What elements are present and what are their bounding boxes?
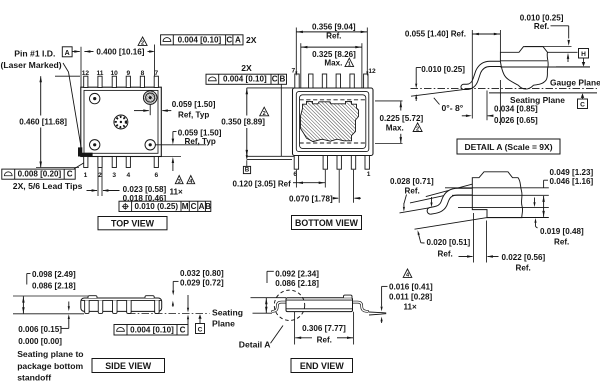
dimension 0.019 [0.48] ref — [535, 222, 537, 227]
side view body — [81, 298, 162, 311]
adjacent lead wedge lines — [426, 184, 473, 197]
middle detail lead plane lines — [445, 187, 549, 189]
svg-text:Ref, Typ: Ref, Typ — [178, 110, 209, 119]
end view right lead — [352, 302, 368, 311]
svg-text:0.306 [7.77]: 0.306 [7.77] — [302, 324, 346, 333]
svg-text:0.092 [2.34]: 0.092 [2.34] — [275, 269, 319, 278]
svg-text:C: C — [67, 170, 73, 179]
svg-text:C: C — [180, 325, 186, 334]
detail A callout circle — [274, 290, 304, 320]
dimension 0.460 [11.68] left of top view — [55, 75, 80, 77]
svg-text:12: 12 — [368, 68, 376, 75]
adjacent lead wedge end view — [369, 311, 386, 314]
top view leads pins 1-6 bottom row — [84, 157, 88, 168]
svg-text:0.019 [0.48]: 0.019 [0.48] — [540, 227, 584, 236]
middle detail body bottom line extended — [487, 217, 549, 219]
dimension 0.034/0.026 foot length — [486, 91, 488, 121]
datum C flag side view — [196, 324, 205, 334]
bottom view leads pins 6-1 bottom row — [294, 156, 298, 170]
svg-text:Plane: Plane — [212, 319, 235, 329]
svg-text:1: 1 — [348, 62, 351, 68]
svg-text:0.023 [0.58]: 0.023 [0.58] — [123, 185, 167, 194]
feature control frame 0.004 [0.10] C A — [161, 35, 243, 45]
svg-text:10: 10 — [111, 70, 119, 77]
svg-text:B: B — [279, 75, 285, 84]
svg-text:1: 1 — [84, 172, 88, 179]
svg-text:0.400 [10.16]: 0.400 [10.16] — [96, 48, 144, 57]
svg-text:2: 2 — [141, 41, 144, 47]
dimension 0.306 [7.77] ref — [294, 312, 296, 345]
svg-text:2: 2 — [98, 172, 102, 179]
svg-text:Seating Plane: Seating Plane — [510, 95, 565, 105]
svg-text:0.000 [0.00]: 0.000 [0.00] — [18, 337, 62, 346]
dimension 0.356 [9.04] ref lead span — [295, 28, 297, 74]
side view leads — [85, 300, 90, 313]
svg-text:0°- 8°: 0°- 8° — [442, 103, 464, 113]
svg-text:0.356 [9.04]: 0.356 [9.04] — [312, 23, 356, 32]
center gear laser mark — [114, 115, 128, 129]
hatched die attach pad — [301, 101, 359, 141]
dimension 0.059 ref typ lower (hole to bottom edge) — [156, 144, 207, 146]
svg-text:A: A — [235, 35, 241, 44]
svg-text:2X: 2X — [241, 63, 252, 73]
svg-text:Pin #1 I.D.: Pin #1 I.D. — [14, 48, 55, 58]
dimension 0.023/0.018 lead width bottom — [97, 168, 99, 196]
seating line under foot — [400, 205, 445, 213]
dimension 0.092/0.086 end view height — [265, 298, 267, 313]
leader from flatness frame down — [280, 84, 282, 156]
note triangle 3 — [175, 176, 183, 184]
pin 1 id leader line — [63, 63, 81, 149]
dimension 0.098/0.086 body height — [22, 296, 24, 313]
detail A extension line right (body edge) — [499, 30, 501, 52]
datum C flag detail A — [578, 99, 588, 109]
side view top bumps — [88, 296, 97, 298]
svg-text:C: C — [580, 102, 585, 109]
svg-text:Seating: Seating — [212, 308, 243, 318]
svg-text:TOP VIEW: TOP VIEW — [111, 218, 155, 228]
svg-text:C: C — [198, 327, 203, 334]
svg-text:4: 4 — [126, 172, 130, 179]
side view label box — [92, 359, 165, 373]
svg-text:0.008 [0.20]: 0.008 [0.20] — [18, 170, 62, 179]
middle detail foot top line extended — [458, 207, 549, 209]
side view extension lines left — [13, 295, 88, 297]
bottom view leads pins 7-12 top row — [295, 74, 299, 88]
svg-text:Ref.: Ref. — [534, 22, 549, 31]
foot angle line 0-8 deg — [411, 90, 463, 97]
svg-text:11×: 11× — [404, 302, 418, 311]
dimension 0.350 [8.89] height — [247, 87, 294, 89]
die attach area dashed lines — [300, 99, 366, 101]
svg-text:0.010 [0.25]: 0.010 [0.25] — [520, 13, 564, 22]
svg-text:C: C — [226, 35, 232, 44]
svg-text:H: H — [581, 51, 586, 58]
seating plane line detail A — [489, 92, 597, 94]
svg-text:8: 8 — [141, 70, 145, 77]
svg-text:package bottom: package bottom — [17, 361, 83, 371]
svg-text:Ref.: Ref. — [516, 264, 531, 273]
feature control frame 0.008 [0.20] C lead tips — [2, 169, 75, 179]
svg-text:Ref.: Ref. — [326, 31, 341, 40]
svg-text:0.070 [1.78]: 0.070 [1.78] — [289, 195, 333, 204]
svg-text:standoff: standoff — [17, 372, 51, 382]
middle detail lead gull wing — [431, 192, 475, 211]
position feature control frame 0.010 (0.25) M C A B — [119, 201, 211, 211]
svg-text:11×: 11× — [170, 187, 184, 196]
svg-text:Max.: Max. — [324, 59, 342, 68]
svg-text:0.049 [1.23]: 0.049 [1.23] — [550, 168, 594, 177]
svg-text:0.046 [1.16]: 0.046 [1.16] — [550, 177, 594, 186]
svg-text:B: B — [205, 202, 211, 211]
mounting hole bottom-left — [90, 140, 100, 150]
end view label box — [291, 359, 353, 373]
mounting hole top-right hatched — [143, 91, 157, 105]
svg-text:DETAIL A (Scale = 9X): DETAIL A (Scale = 9X) — [464, 142, 552, 152]
svg-text:0.029 [0.72]: 0.029 [0.72] — [180, 279, 224, 288]
svg-text:0.010 (0.25): 0.010 (0.25) — [134, 202, 178, 211]
svg-text:2: 2 — [263, 111, 266, 117]
svg-text:Detail A: Detail A — [239, 340, 271, 350]
svg-text:0.016 [0.41]: 0.016 [0.41] — [389, 282, 433, 291]
second 0.028 arrow over foot — [431, 197, 433, 203]
end view top bump — [344, 295, 353, 298]
dimension 0.016/0.011 lead width 11x — [403, 269, 412, 277]
end view extension lines — [251, 297, 287, 299]
dimension 0.059 ref typ upper (hole to edge) — [149, 105, 151, 116]
note triangle 1 near max — [345, 58, 354, 66]
svg-text:0.006 [0.15]: 0.006 [0.15] — [18, 325, 62, 334]
svg-text:0.225 [5.72]: 0.225 [5.72] — [380, 114, 424, 123]
dimension 0.325 [8.26] max body width — [300, 43, 302, 88]
dimension arrow seat to foot-top — [534, 198, 536, 204]
svg-text:A: A — [65, 50, 70, 57]
pin 1 corner index mark — [78, 147, 82, 156]
svg-text:1: 1 — [367, 171, 371, 178]
svg-text:6: 6 — [154, 172, 158, 179]
note triangle 2 right — [413, 123, 422, 132]
svg-text:0.460 [11.68]: 0.460 [11.68] — [19, 118, 67, 127]
mounting hole top-left — [90, 93, 100, 103]
svg-text:2X, 5/6 Lead Tips: 2X, 5/6 Lead Tips — [13, 181, 83, 191]
svg-text:Max.: Max. — [386, 123, 404, 132]
svg-text:Seating plane to: Seating plane to — [17, 349, 83, 359]
svg-text:Ref, Typ: Ref, Typ — [185, 137, 216, 146]
svg-text:Ref.: Ref. — [438, 250, 453, 259]
note triangle 2 top — [138, 37, 147, 45]
svg-text:0.028 [0.71]: 0.028 [0.71] — [390, 177, 434, 186]
svg-text:END VIEW: END VIEW — [300, 361, 345, 371]
detail A extension line left (knee tangent) — [471, 30, 473, 119]
bottom view label box — [292, 216, 362, 230]
tilted package bottom line — [415, 218, 488, 230]
middle detail molded body — [472, 172, 522, 218]
svg-text:0.011 [0.28]: 0.011 [0.28] — [389, 292, 433, 301]
svg-text:0.086 [2.18]: 0.086 [2.18] — [275, 279, 319, 288]
dimension 0.020 [0.51] ref standoff — [419, 234, 421, 243]
dimension 0.070 [1.78] pitch — [338, 170, 340, 203]
svg-text:2X: 2X — [246, 35, 257, 45]
note triangle 2 mid — [260, 107, 269, 116]
detail A lead gull wing — [464, 64, 501, 87]
top view label box — [98, 217, 167, 230]
seating plane arrows side view — [187, 295, 189, 309]
datum A flag — [62, 47, 72, 57]
seating plane dash-dot side view — [128, 313, 210, 315]
svg-text:0.034 [0.85]: 0.034 [0.85] — [494, 105, 538, 114]
svg-text:3: 3 — [178, 179, 181, 185]
svg-text:0.022 [0.56]: 0.022 [0.56] — [502, 253, 546, 262]
svg-text:0.059 [1.50]: 0.059 [1.50] — [178, 128, 222, 137]
svg-text:B: B — [245, 167, 250, 174]
svg-text:0.098 [2.49]: 0.098 [2.49] — [32, 270, 76, 279]
feature control frame 0.004 [0.10] C side view — [114, 325, 188, 336]
note triangle 4 — [187, 176, 195, 184]
svg-text:C: C — [191, 202, 197, 211]
svg-text:0.032 [0.80]: 0.032 [0.80] — [180, 269, 224, 278]
datum B flag bottom view — [247, 159, 292, 161]
dimension 0.225 [5.72] max die pad — [375, 100, 403, 102]
svg-text:A: A — [199, 202, 205, 211]
svg-text:C: C — [272, 75, 278, 84]
svg-text:(Laser Marked): (Laser Marked) — [1, 60, 62, 70]
end view body — [286, 298, 353, 312]
svg-text:SIDE VIEW: SIDE VIEW — [105, 361, 151, 371]
detail A molded body — [500, 47, 548, 89]
svg-text:0.004 [0.10]: 0.004 [0.10] — [178, 35, 222, 44]
svg-text:BOTTOM VIEW: BOTTOM VIEW — [295, 218, 359, 228]
svg-text:0.055 [1.40] Ref.: 0.055 [1.40] Ref. — [405, 30, 466, 39]
svg-text:12: 12 — [82, 70, 90, 77]
svg-text:0.120 [3.05] Ref: 0.120 [3.05] Ref — [233, 179, 292, 188]
svg-text:9: 9 — [126, 70, 130, 77]
end view left lead — [273, 302, 287, 311]
bottom view body outline — [293, 88, 374, 156]
svg-text:Ref.: Ref. — [554, 238, 569, 247]
svg-text:2: 2 — [416, 127, 419, 133]
svg-text:Ref.: Ref. — [405, 186, 420, 195]
svg-text:0.325 [8.26]: 0.325 [8.26] — [312, 50, 356, 59]
svg-text:Gauge Plane: Gauge Plane — [550, 78, 600, 88]
gauge plane line — [411, 87, 598, 89]
svg-text:0.086 [2.18]: 0.086 [2.18] — [32, 281, 76, 290]
svg-text:7: 7 — [154, 70, 158, 77]
datum H flag — [579, 49, 589, 59]
svg-text:7: 7 — [291, 68, 295, 75]
svg-text:0.026 [0.65]: 0.026 [0.65] — [494, 116, 538, 125]
svg-text:M: M — [182, 202, 189, 211]
svg-text:0.004 [0.10]: 0.004 [0.10] — [130, 325, 174, 334]
dimension 0.120 [3.05] ref pin spacing — [295, 170, 297, 188]
svg-text:Ref.: Ref. — [317, 335, 332, 344]
mounting hole bottom-right — [145, 140, 155, 150]
dimension 0.400 [10.16] top of top view — [80, 47, 82, 87]
svg-text:0.059 [1.50]: 0.059 [1.50] — [172, 100, 216, 109]
detail A lead plane lines through body — [500, 60, 547, 62]
dimension 0.055 [1.40] ref — [472, 33, 500, 35]
svg-text:0.010 [0.25]: 0.010 [0.25] — [421, 65, 465, 74]
top view package body outline — [81, 87, 162, 156]
top view leads pins 12-7 top row — [84, 76, 88, 87]
svg-text:0.020 [0.51]: 0.020 [0.51] — [427, 238, 471, 247]
svg-text:11: 11 — [97, 70, 104, 77]
svg-text:0.004 [0.10]: 0.004 [0.10] — [223, 75, 267, 84]
leader from lead-tip frame — [74, 163, 84, 169]
dimension 0.006/0.000 standoff — [68, 302, 70, 308]
svg-text:3: 3 — [112, 172, 116, 179]
dimension 0.022 [0.56] ref — [473, 213, 475, 263]
detail A label box — [457, 139, 560, 154]
svg-text:0.350 [8.89]: 0.350 [8.89] — [221, 117, 265, 126]
